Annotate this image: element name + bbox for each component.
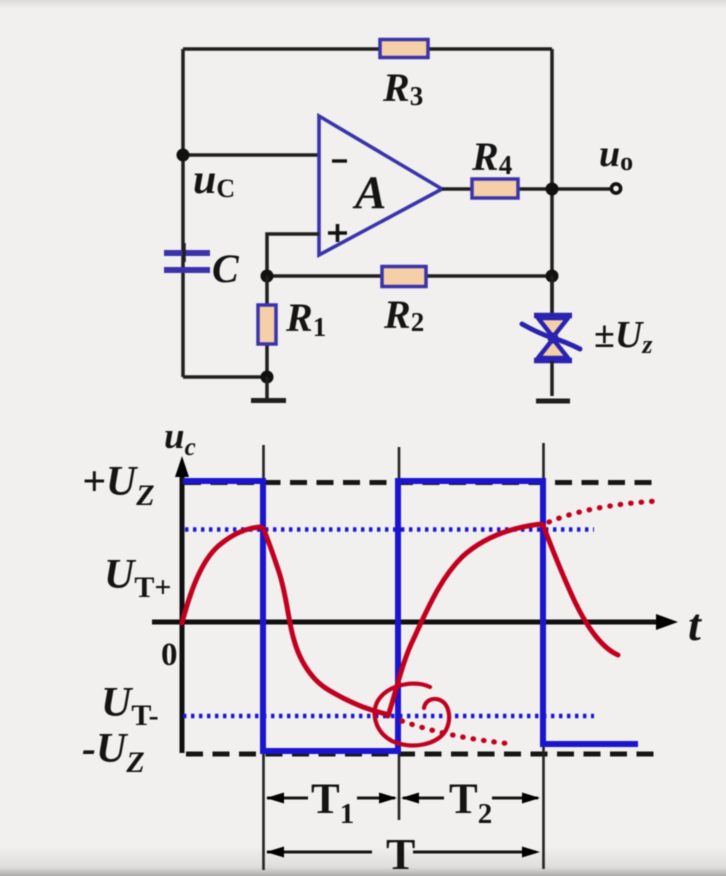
- svg-text:UT-: UT-: [101, 680, 159, 732]
- svg-text:t: t: [688, 599, 702, 650]
- svg-text:C: C: [212, 246, 240, 291]
- capacitor charge curve segment 2 (red rise T2): [388, 524, 541, 716]
- zener wing stroke: [522, 324, 580, 349]
- resistor R4: [471, 134, 518, 198]
- node plus-input junction: [261, 270, 274, 283]
- level line +Uz dashed: [184, 480, 660, 485]
- axis y line: [180, 468, 185, 753]
- boundary line t1 end / t2 start: [398, 447, 401, 820]
- dimension T2 right arrowhead: [522, 793, 540, 804]
- pin inverting (-) mark: [332, 159, 347, 162]
- resistor R3 body: [380, 40, 428, 58]
- zener triangle bottom: [538, 339, 568, 358]
- wire left vertical (node uC to bottom rail): [181, 49, 185, 377]
- level line -Uz dashed: [186, 752, 657, 757]
- ground right: [536, 399, 570, 404]
- op-amp A: [319, 116, 442, 255]
- dotted red continuation (rise toward +Uz): [549, 501, 658, 522]
- wire inverting input: [183, 153, 319, 157]
- axis x arrowhead: [656, 614, 678, 630]
- node uC dot: [177, 149, 190, 162]
- dimension T1 right arrowhead: [379, 793, 397, 804]
- dimension T2: [401, 776, 540, 830]
- svg-text:uC: uC: [193, 157, 235, 203]
- boundary line t1 start: [262, 445, 265, 870]
- annotation circle (red, around switching point): [375, 684, 450, 746]
- resistor R3: [380, 40, 428, 112]
- capacitor C top plate: [164, 250, 210, 256]
- resistor R2: [382, 267, 426, 338]
- svg-text:0: 0: [161, 637, 178, 673]
- axis x (t): [152, 614, 678, 630]
- level line UT- dotted blue: [183, 714, 594, 719]
- resistor R2 body: [382, 267, 426, 287]
- boundary line t2 end: [542, 443, 545, 869]
- wire ground stub: [265, 377, 269, 398]
- capacitor charge curve segment 1 (red rise): [182, 527, 260, 623]
- svg-text:R3: R3: [382, 65, 423, 111]
- dimension T left arrowhead: [266, 847, 284, 858]
- pin non-inverting (+) mark: [328, 224, 347, 242]
- dimension T lines: [267, 851, 536, 854]
- resistor R1: [258, 276, 326, 377]
- square wave uo (blue): [183, 481, 638, 751]
- zener center junction: [548, 333, 559, 344]
- resistor R1 body: [258, 305, 276, 344]
- dimension T1 left arrowhead: [266, 793, 284, 804]
- dimension T2 left arrowhead: [401, 793, 419, 804]
- ground left: [251, 377, 286, 401]
- zener diode pair D (bidirectional, ±Uz clamp): [522, 276, 580, 396]
- capacitor discharge curve segment (red fall T1): [263, 528, 386, 714]
- dimension T1 lines: [267, 797, 395, 800]
- svg-text:R1: R1: [285, 295, 326, 342]
- svg-text:-UZ: -UZ: [82, 726, 145, 779]
- dimension T2 lines: [403, 797, 538, 800]
- zener triangle top: [538, 318, 568, 337]
- node R2 right junction: [546, 270, 559, 283]
- svg-text:±Uz: ±Uz: [594, 314, 653, 359]
- wire non-inverting input: [267, 234, 319, 276]
- wire op-amp output: [442, 187, 610, 191]
- zener cathode bar top: [534, 313, 572, 319]
- axis x line: [152, 620, 662, 625]
- resistor R4 body: [472, 179, 518, 198]
- dimension T right arrowhead: [522, 847, 540, 858]
- wire zener top lead: [550, 276, 554, 316]
- svg-text:T: T: [386, 830, 415, 876]
- axis y arrowhead: [175, 456, 189, 477]
- node output junction: [546, 183, 559, 196]
- wire top feedback rail: [183, 47, 552, 51]
- capacitor discharge curve segment 2 (red fall after T2): [543, 525, 618, 655]
- terminal uo: [611, 184, 620, 193]
- svg-text:+UZ: +UZ: [82, 459, 155, 512]
- svg-text:UT+: UT+: [104, 552, 171, 604]
- dimension T: [266, 830, 540, 876]
- ground bar: [251, 398, 286, 403]
- wire R1 leads: [265, 276, 269, 377]
- axis y (uc): [175, 456, 189, 753]
- wire right vertical rail: [550, 49, 554, 315]
- dotted red continuation (fall toward -Uz): [402, 721, 513, 744]
- wire bottom rail: [183, 375, 267, 379]
- op-amp A triangle body: [319, 116, 442, 255]
- svg-text:A: A: [352, 167, 386, 219]
- svg-text:T2: T2: [449, 776, 492, 830]
- svg-text:uo: uo: [599, 133, 633, 176]
- zener cathode bar bottom: [534, 358, 572, 364]
- node ground junction: [261, 371, 274, 384]
- wire feedback lower (R2 rail): [267, 274, 552, 278]
- capacitor C bottom plate: [164, 267, 210, 273]
- svg-text:T1: T1: [311, 776, 354, 830]
- level line UT+ dotted blue: [185, 527, 594, 532]
- wire zener bottom lead: [550, 361, 554, 396]
- capacitor C: [164, 243, 240, 291]
- svg-text:uc: uc: [164, 416, 196, 461]
- dimension T1: [266, 776, 397, 830]
- svg-text:R4: R4: [471, 134, 512, 180]
- wire capacitor lead: [182, 243, 186, 262]
- svg-text:R2: R2: [383, 292, 424, 337]
